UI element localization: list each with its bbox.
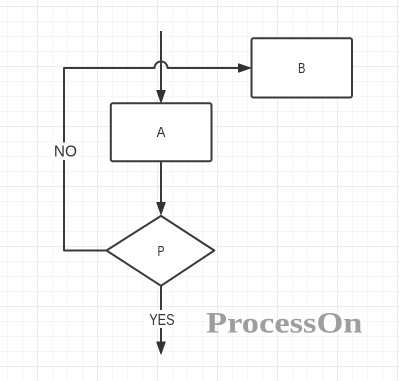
svg-text:YES: YES — [149, 312, 174, 329]
label YES background — [147, 310, 177, 328]
svg-text:ProcessOn: ProcessOn — [206, 307, 363, 340]
wire: YES from P down — [160, 286, 162, 343]
arrowhead into B — [239, 64, 251, 72]
wire: entry line into A — [160, 31, 162, 92]
process box A — [111, 103, 212, 161]
wire: NO feedback from P to B with hop over entry line — [64, 62, 240, 251]
arrowhead bottom — [157, 342, 165, 354]
wire: A to P — [160, 161, 162, 204]
arrowhead into P — [157, 203, 165, 215]
label NO background — [52, 143, 79, 161]
arrowhead into A — [157, 91, 165, 103]
svg-text:A: A — [157, 125, 166, 141]
svg-text:NO: NO — [54, 144, 77, 161]
decision diamond P — [107, 216, 215, 286]
svg-text:P: P — [158, 244, 165, 260]
process box B — [252, 38, 353, 97]
svg-text:B: B — [298, 61, 305, 77]
